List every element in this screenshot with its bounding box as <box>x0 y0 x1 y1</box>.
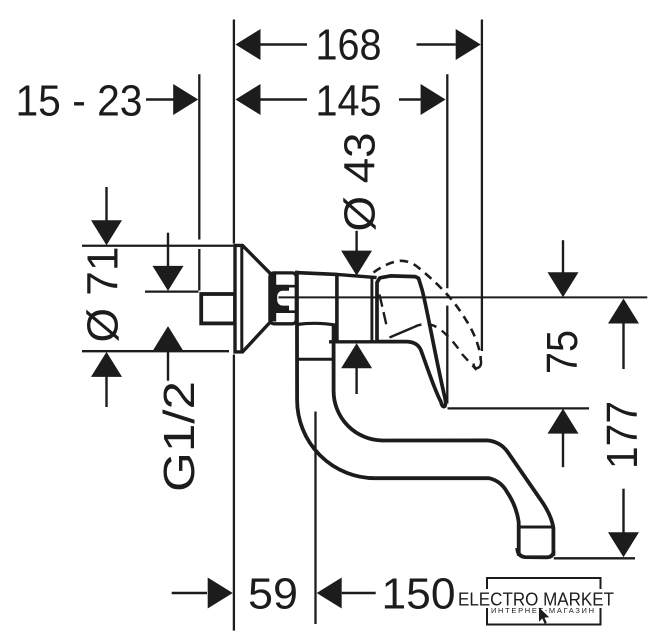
svg-text:Ø 71: Ø 71 <box>80 247 128 343</box>
svg-text:150: 150 <box>382 571 456 619</box>
svg-text:G1/2: G1/2 <box>156 381 204 492</box>
svg-text:Ø 43: Ø 43 <box>337 133 385 232</box>
svg-text:177: 177 <box>599 401 647 469</box>
svg-text:168: 168 <box>316 22 382 70</box>
svg-text:75: 75 <box>539 330 587 374</box>
svg-text:145: 145 <box>316 78 382 126</box>
svg-text:59: 59 <box>248 571 298 619</box>
svg-text:15 - 23: 15 - 23 <box>16 78 143 126</box>
